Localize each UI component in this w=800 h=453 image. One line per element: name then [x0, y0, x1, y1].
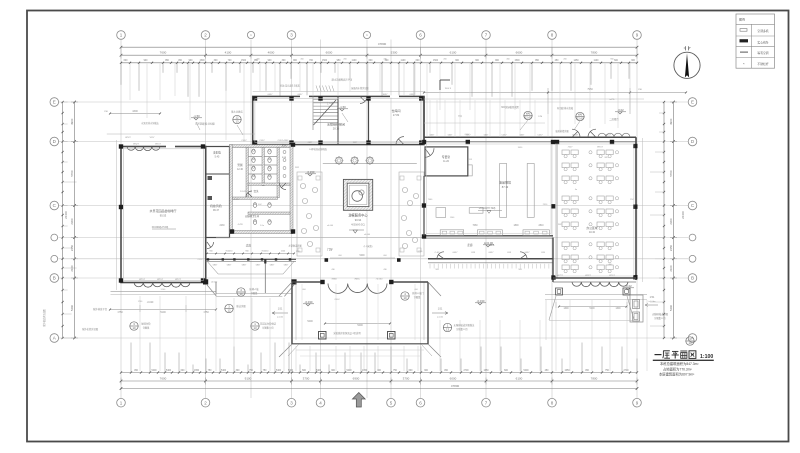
svg-text:W157: W157	[155, 144, 161, 146]
svg-text:1:51: 1:51	[650, 296, 655, 299]
svg-text:4900: 4900	[70, 118, 74, 125]
svg-text:7600: 7600	[160, 376, 167, 380]
svg-text:#M527: #M527	[572, 135, 579, 137]
svg-text:1450: 1450	[573, 60, 579, 62]
svg-text:图例: 图例	[739, 17, 745, 22]
svg-text:5400: 5400	[316, 370, 322, 372]
svg-text:C057: C057	[538, 135, 544, 137]
svg-text:-0.020: -0.020	[147, 302, 154, 304]
svg-text:4900: 4900	[669, 118, 673, 125]
svg-text:2230: 2230	[219, 225, 225, 227]
svg-text:C057-4362: C057-4362	[278, 140, 290, 142]
svg-text:5400: 5400	[151, 370, 157, 372]
svg-text:12: 12	[227, 308, 231, 312]
svg-text:变配电: 变配电	[213, 151, 221, 155]
svg-text:2300: 2300	[70, 218, 74, 225]
svg-text:#527: #527	[568, 147, 574, 149]
svg-text:V157: V157	[150, 137, 156, 139]
svg-text:i=1.4m: i=1.4m	[437, 317, 444, 319]
svg-text:2810: 2810	[538, 225, 544, 227]
svg-text:40.32: 40.32	[589, 231, 596, 234]
svg-text:47800: 47800	[451, 384, 460, 388]
svg-text:6000: 6000	[326, 50, 333, 54]
svg-text:W127: W127	[175, 279, 181, 281]
svg-text:1500: 1500	[433, 60, 439, 62]
svg-text:3700: 3700	[303, 376, 310, 380]
svg-text:22300: 22300	[64, 211, 68, 219]
svg-text:10: 10	[132, 326, 136, 330]
svg-text:i=1.4m: i=1.4m	[649, 301, 656, 303]
svg-text:5400: 5400	[346, 370, 352, 372]
svg-text:60C: 60C	[258, 204, 262, 206]
svg-text:E2.60: E2.60	[524, 115, 532, 119]
svg-text:C057: C057	[241, 140, 247, 142]
svg-text:1:100: 1:100	[700, 354, 713, 360]
svg-text:-0.02: -0.02	[625, 284, 632, 288]
svg-text:1800: 1800	[513, 225, 519, 227]
svg-text:水景花园品尝咖啡厅: 水景花园品尝咖啡厅	[149, 208, 176, 213]
svg-text:2700: 2700	[463, 370, 469, 372]
svg-text:-0.02: -0.02	[617, 108, 624, 112]
svg-text:1100: 1100	[594, 60, 600, 62]
svg-text:室外休息平台: 室外休息平台	[93, 307, 108, 311]
svg-text:1500: 1500	[514, 60, 520, 62]
svg-text:12.47: 12.47	[240, 191, 246, 193]
svg-text:47800: 47800	[378, 42, 387, 46]
svg-text:5100: 5100	[589, 308, 595, 310]
svg-text:女厕: 女厕	[282, 143, 287, 147]
svg-text:6600: 6600	[516, 50, 523, 54]
svg-text:13: 13	[446, 327, 450, 331]
svg-text:男厕: 男厕	[237, 163, 243, 167]
svg-text:11.20: 11.20	[443, 160, 449, 163]
svg-text:28.6: 28.6	[490, 245, 495, 247]
svg-text:2300: 2300	[669, 218, 673, 225]
svg-text:2450: 2450	[669, 244, 673, 251]
svg-text:5300: 5300	[391, 50, 398, 54]
svg-text:门厅: 门厅	[327, 248, 333, 252]
svg-text:1650: 1650	[362, 370, 368, 372]
svg-text:E2.60: E2.60	[576, 116, 584, 120]
svg-text:H=0.00: H=0.00	[484, 241, 494, 245]
svg-text:过道: 过道	[246, 244, 252, 248]
svg-text:3097: 3097	[383, 94, 389, 96]
svg-text:1100: 1100	[352, 60, 358, 62]
svg-text:2700: 2700	[623, 370, 629, 372]
svg-text:±0.000: ±0.000	[211, 282, 218, 284]
svg-text:1.2M: 1.2M	[538, 116, 543, 118]
svg-text:96.47: 96.47	[213, 209, 220, 212]
svg-text:等有空调: 等有空调	[757, 51, 768, 55]
svg-text:W-E X: W-E X	[445, 88, 452, 90]
svg-text:95.53: 95.53	[160, 214, 167, 218]
svg-text:0657: 0657	[525, 252, 531, 254]
svg-text:1500: 1500	[199, 60, 205, 62]
svg-text:专要室: 专要室	[442, 155, 451, 159]
svg-text:28.15: 28.15	[333, 126, 340, 130]
svg-text:7800: 7800	[591, 376, 598, 380]
svg-text:10: 10	[403, 296, 407, 300]
svg-text:W527: W527	[133, 144, 139, 146]
svg-text:(100宽缓坡土找坡): (100宽缓坡土找坡)	[195, 122, 215, 126]
svg-text:实心线条: 实心线条	[757, 40, 768, 44]
svg-text:-0.030: -0.030	[305, 300, 313, 304]
svg-text:1750: 1750	[117, 311, 123, 314]
svg-text:5460: 5460	[70, 304, 74, 311]
svg-text:6100: 6100	[450, 50, 457, 54]
svg-text:7950: 7950	[587, 88, 593, 91]
svg-text:1300: 1300	[563, 308, 569, 310]
svg-text:i=2%: i=2%	[610, 99, 615, 101]
svg-text:A: A	[53, 336, 56, 341]
svg-text:4100: 4100	[225, 50, 232, 54]
svg-text:6900: 6900	[353, 376, 360, 380]
svg-text:±0.000: ±0.000	[327, 225, 334, 227]
svg-text:5400: 5400	[221, 370, 227, 372]
svg-text:油品展馆: 油品展馆	[499, 180, 511, 185]
svg-text:C057: C057	[259, 140, 265, 142]
svg-text:#4.530: #4.530	[376, 279, 383, 281]
svg-text:W157: W157	[605, 135, 611, 137]
svg-text:W157: W157	[597, 147, 603, 149]
svg-text:盥洗: 盥洗	[254, 189, 259, 193]
svg-text:办公区域: 办公区域	[586, 226, 597, 230]
svg-text:×: ×	[743, 61, 745, 65]
svg-text:E: E	[53, 100, 56, 105]
svg-text:1100: 1100	[401, 60, 407, 62]
svg-text:5460: 5460	[669, 304, 673, 311]
svg-text:5400: 5400	[307, 320, 313, 323]
svg-text:7800: 7800	[591, 50, 598, 54]
svg-text:5400: 5400	[359, 255, 365, 257]
svg-text:1:51: 1:51	[278, 309, 283, 311]
svg-text:13: 13	[688, 341, 692, 345]
svg-text:12.40: 12.40	[237, 169, 243, 171]
svg-text:900450: 900450	[262, 251, 270, 253]
svg-text:2100: 2100	[70, 265, 74, 272]
svg-text:-1.50: -1.50	[339, 105, 346, 109]
svg-text:-0.030: -0.030	[477, 299, 485, 303]
svg-text:W157: W157	[139, 279, 145, 281]
svg-text:本层建筑面积为607.9m²: 本层建筑面积为607.9m²	[659, 371, 695, 376]
svg-text:无障碍卫生间: 无障碍卫生间	[245, 214, 260, 218]
svg-text:1500: 1500	[322, 60, 328, 62]
svg-text:5400: 5400	[166, 370, 172, 372]
svg-text:-5.78: -5.78	[238, 224, 244, 226]
svg-text:-1.50: -1.50	[193, 114, 200, 118]
svg-text:#M6C: #M6C	[354, 279, 360, 281]
svg-text:W527: W527	[125, 137, 131, 139]
svg-text:1650: 1650	[194, 370, 200, 372]
svg-text:22300: 22300	[681, 211, 685, 219]
svg-text:机械(风机): 机械(风机)	[210, 204, 222, 208]
svg-text:9100: 9100	[245, 376, 252, 380]
svg-text:25C: 25C	[630, 199, 634, 201]
svg-text:不锈栏杆: 不锈栏杆	[757, 62, 768, 66]
svg-text:0657: 0657	[489, 252, 495, 254]
svg-text:E: E	[691, 100, 694, 105]
svg-text:87.19: 87.19	[502, 185, 509, 189]
svg-text:走廊: 走廊	[467, 243, 473, 247]
svg-text:5.45: 5.45	[215, 155, 220, 158]
svg-text:+0.000(H7.6M): +0.000(H7.6M)	[479, 207, 496, 210]
svg-text:4000(H9.5C): 4000(H9.5C)	[351, 223, 365, 226]
svg-text:-0.150: -0.150	[307, 170, 315, 174]
svg-text:无障碍楼梯间: 无障碍楼梯间	[327, 122, 345, 127]
svg-text:5700: 5700	[669, 170, 673, 177]
svg-text:本栋总建筑面积为847.3m²: 本栋总建筑面积为847.3m²	[660, 361, 699, 366]
svg-text:B: B	[691, 276, 694, 281]
svg-text:1650: 1650	[483, 370, 489, 372]
svg-text:#M60: #M60	[331, 279, 337, 281]
svg-text:1:51: 1:51	[438, 309, 443, 311]
svg-text:6000: 6000	[450, 376, 457, 380]
svg-text:1650: 1650	[564, 370, 570, 372]
svg-text:1750: 1750	[203, 311, 209, 314]
svg-text:4300: 4300	[132, 110, 138, 113]
svg-text:5400: 5400	[523, 370, 529, 372]
svg-text:4000: 4000	[268, 50, 275, 54]
svg-text:5400: 5400	[357, 324, 363, 327]
svg-text:5700: 5700	[70, 170, 74, 177]
svg-text:C057: C057	[502, 135, 508, 137]
svg-text:i=1.4m: i=1.4m	[277, 317, 284, 319]
svg-text:0357: 0357	[410, 94, 416, 96]
svg-text:B: B	[53, 276, 56, 281]
svg-text:-0.450: -0.450	[233, 199, 240, 201]
svg-text:7060: 7060	[472, 225, 478, 227]
svg-text:W157: W157	[157, 279, 163, 281]
svg-text:17.82: 17.82	[393, 113, 400, 117]
svg-text:空调多机: 空调多机	[757, 29, 768, 33]
svg-text:2450: 2450	[70, 244, 74, 251]
svg-text:1300: 1300	[615, 308, 621, 310]
svg-text:1500: 1500	[241, 60, 247, 62]
svg-text:13: 13	[253, 326, 257, 330]
svg-text:900450: 900450	[226, 251, 234, 253]
svg-text:#M6C: #M6C	[334, 299, 340, 301]
svg-text:13: 13	[235, 119, 239, 123]
svg-text:游客服务中心: 游客服务中心	[348, 213, 368, 218]
svg-text:6100: 6100	[516, 376, 523, 380]
svg-text:10: 10	[239, 292, 243, 296]
svg-text:3700: 3700	[403, 376, 410, 380]
svg-text:仓库间: 仓库间	[391, 108, 400, 113]
svg-text:5400: 5400	[276, 370, 282, 372]
svg-text:2100: 2100	[669, 265, 673, 272]
svg-text:±0.000: ±0.000	[364, 234, 371, 236]
svg-text:0657: 0657	[268, 94, 274, 96]
svg-text:90.94: 90.94	[355, 218, 362, 222]
svg-text:5100: 5100	[160, 311, 166, 314]
svg-text:±0.000(H7.00): ±0.000(H7.00)	[152, 225, 169, 229]
svg-text:0657: 0657	[453, 252, 459, 254]
svg-text:7600: 7600	[160, 50, 167, 54]
svg-text:占地面积为770.3m²: 占地面积为770.3m²	[663, 366, 692, 371]
